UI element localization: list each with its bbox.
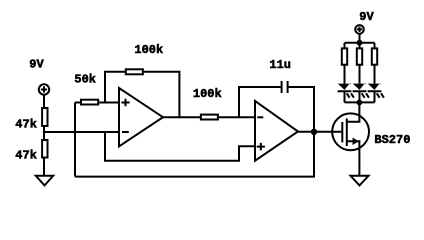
svg-text:11u: 11u [269,58,291,72]
svg-text:100k: 100k [193,87,222,101]
svg-text:47k: 47k [15,148,37,162]
svg-text:47k: 47k [15,118,37,132]
svg-text:50k: 50k [74,73,96,87]
svg-text:BS270: BS270 [374,133,410,147]
svg-text:9V: 9V [29,58,44,72]
svg-text:9V: 9V [359,10,374,24]
svg-text:100k: 100k [134,43,163,57]
